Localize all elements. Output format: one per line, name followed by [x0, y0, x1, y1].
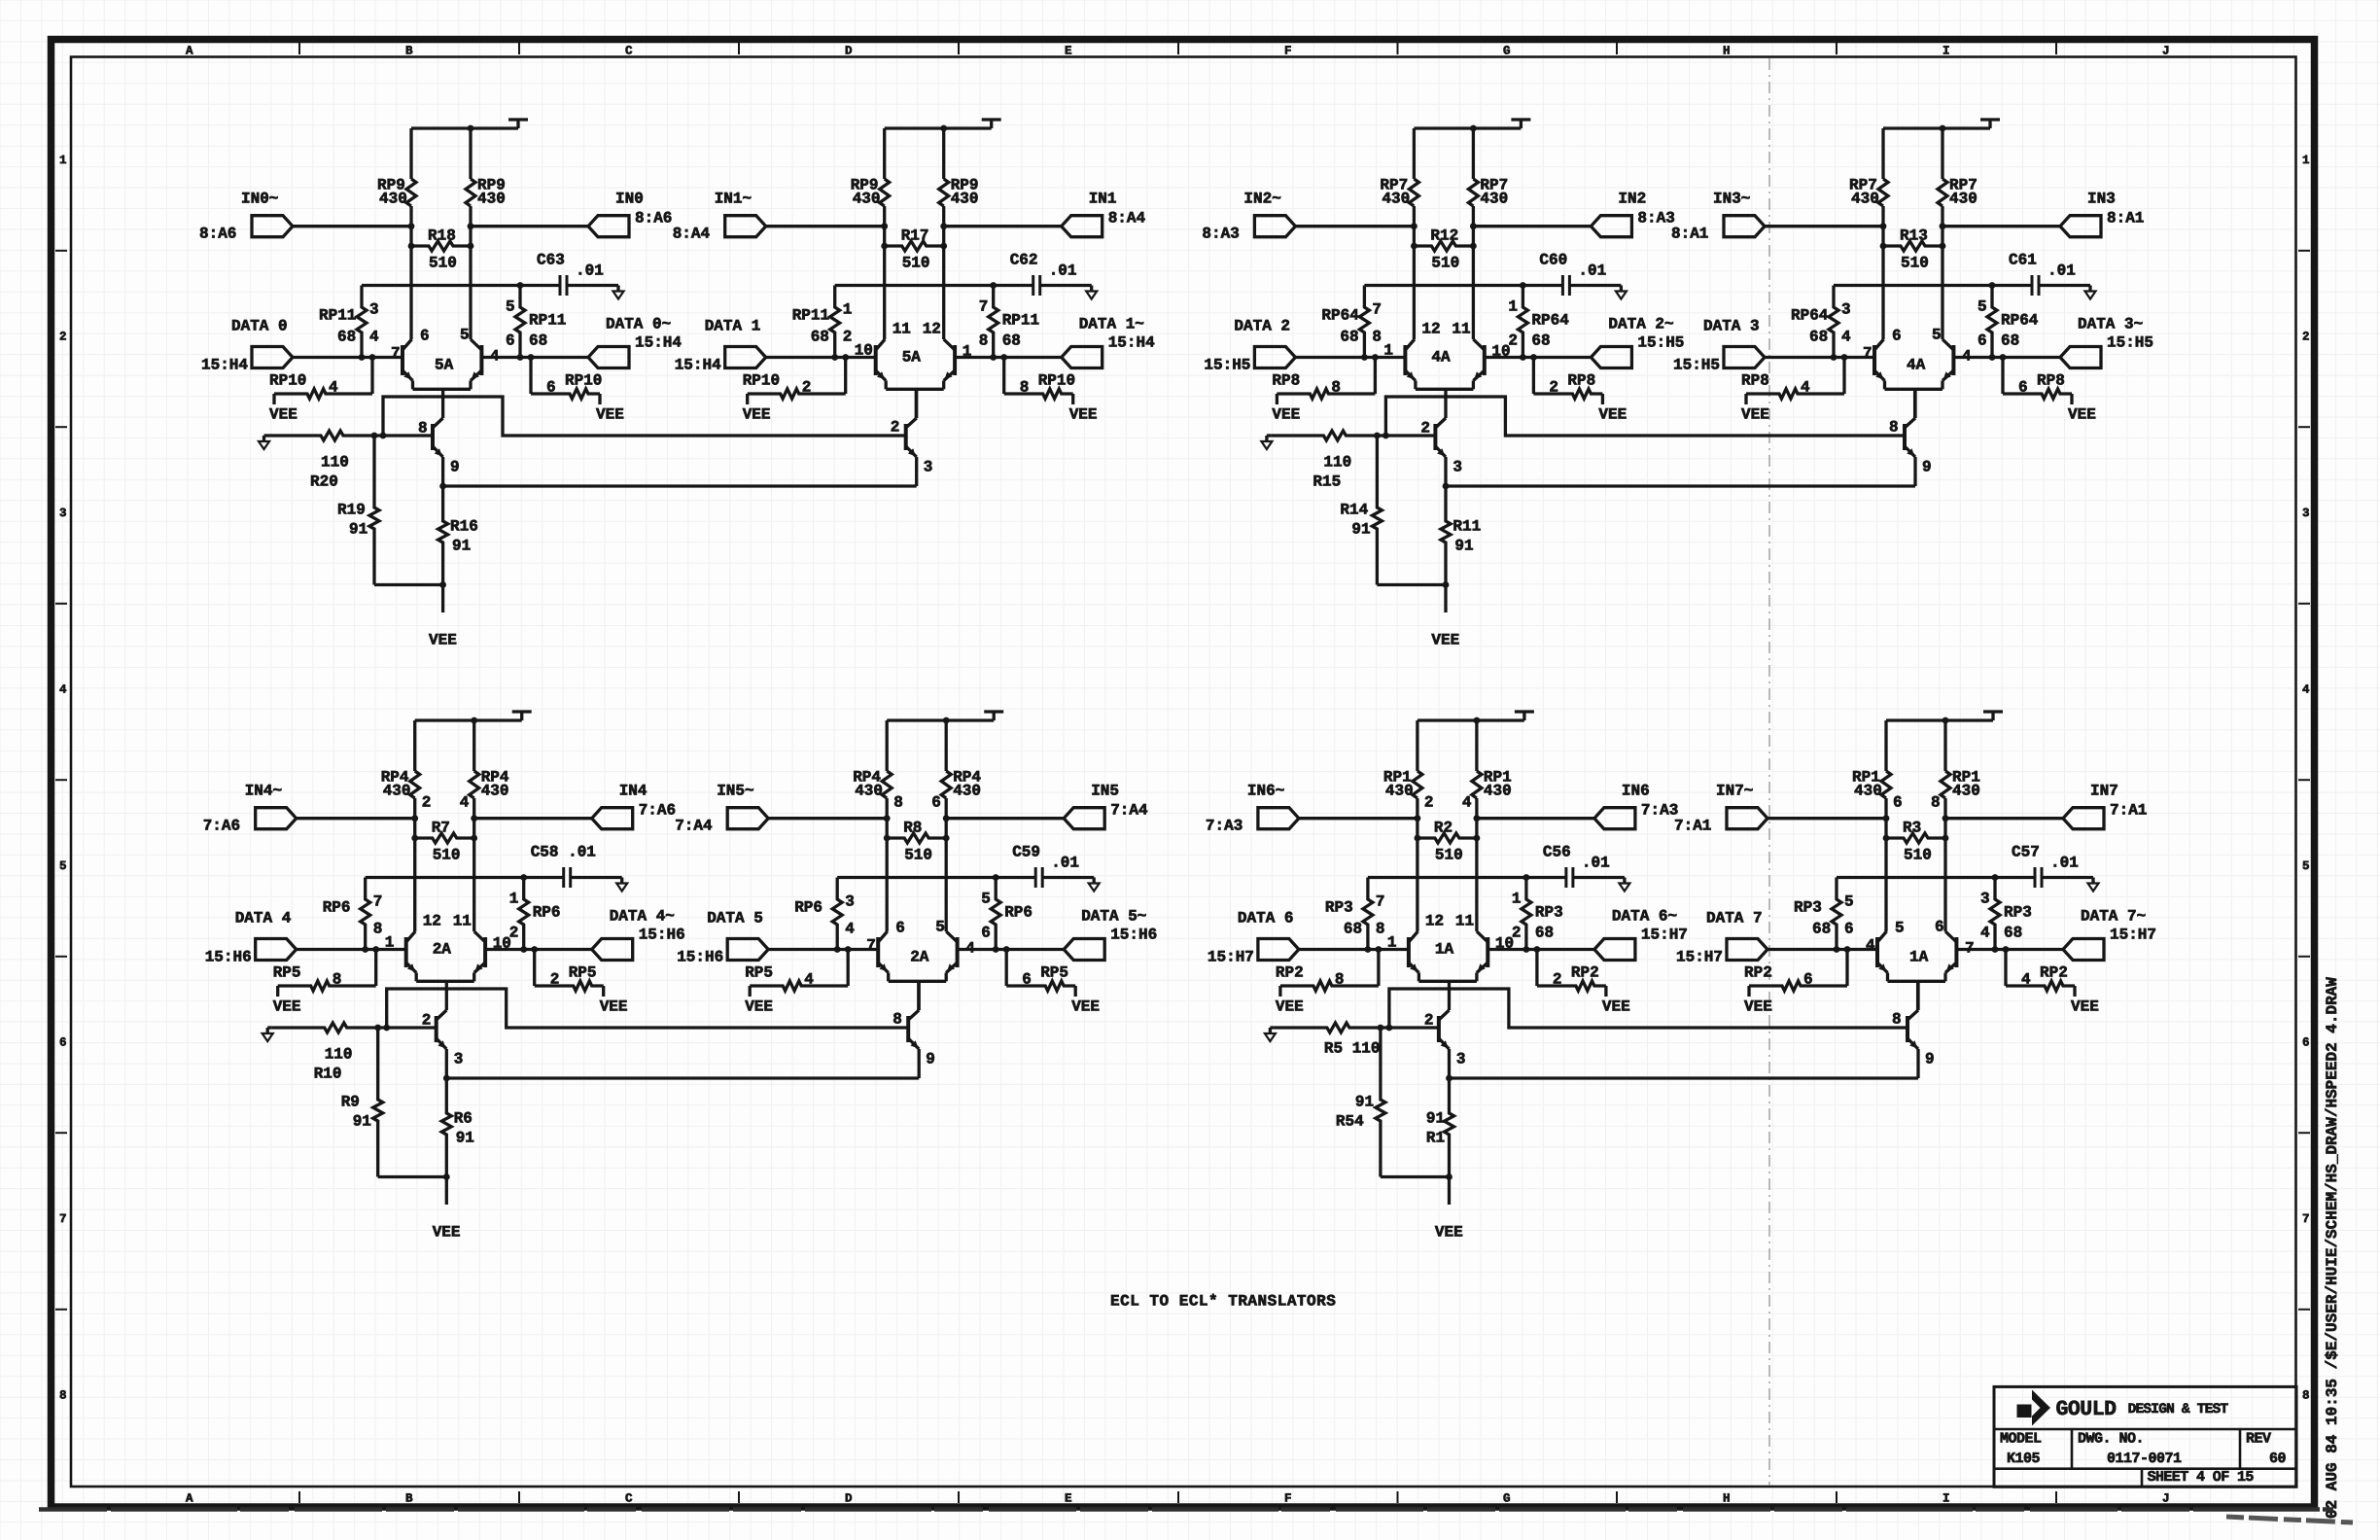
svg-text:430: 430 — [379, 191, 407, 208]
resistor RP7 430 left (IN2 cell) — [1380, 177, 1418, 208]
svg-text:91: 91 — [353, 1113, 371, 1131]
resistor R3 510 (IN7 cell) — [1883, 820, 1949, 864]
wire 2A emitter tail — [917, 981, 920, 1010]
title block frame — [1994, 1386, 2296, 1487]
svg-text:IN7: IN7 — [2090, 783, 2118, 800]
ground at C63 (IN0 cell) — [613, 286, 624, 299]
title block MODEL K105 — [2000, 1431, 2042, 1468]
wire collector cross line to C62 (IN1 cell) — [835, 282, 1033, 289]
resistor RP10 right pin 8 to VEE (IN1 cell) — [1004, 358, 1075, 405]
wire collector cross line to C58 (IN4 cell) — [366, 874, 564, 881]
svg-text:DATA 2: DATA 2 — [1234, 318, 1290, 335]
svg-text:.01: .01 — [1051, 855, 1079, 872]
svg-text:7: 7 — [59, 1212, 67, 1226]
svg-text:VEE: VEE — [1071, 998, 1100, 1016]
svg-text:3: 3 — [1456, 1051, 1466, 1068]
svg-text:R3: R3 — [1903, 820, 1921, 837]
svg-text:DATA 7~: DATA 7~ — [2081, 908, 2146, 926]
svg-text:REV: REV — [2246, 1431, 2271, 1448]
svg-text:60: 60 — [2269, 1451, 2287, 1467]
power VEE left (IN4 cell) — [273, 998, 301, 1016]
resistor R17 510 (IN1 cell) — [881, 227, 947, 272]
wire left collector rail (IN3 cell) — [1881, 128, 1884, 339]
wire IN0~ to left rail — [293, 223, 414, 229]
resistor RP2 right pin 2 to VEE (IN6 cell) — [1537, 950, 1606, 997]
logo GOULD emblem — [2017, 1390, 2051, 1426]
connector DATA 0~ output (15:H4) — [588, 316, 682, 368]
capacitor C62 .01 (IN1 cell) — [1010, 252, 1092, 296]
power VEE bias tail — [1431, 632, 1459, 649]
ground at C58 (IN4 cell) — [616, 878, 627, 892]
svg-text:I: I — [1942, 1492, 1950, 1506]
ground at bias divider — [259, 436, 269, 449]
border column letters top — [186, 43, 2170, 58]
transistor bias Q pins 2/3 (under IN4 cell) — [422, 1010, 464, 1078]
wire right collector rail (IN2 cell) — [1472, 128, 1475, 339]
svg-text:6: 6 — [1803, 971, 1813, 989]
svg-text:6: 6 — [931, 794, 941, 812]
svg-text:8: 8 — [1931, 794, 1941, 812]
svg-text:7:A6: 7:A6 — [639, 802, 676, 820]
connector DATA 3~ output (15:H5) — [2060, 316, 2153, 368]
svg-text:E: E — [1065, 45, 1072, 58]
svg-text:7: 7 — [1376, 893, 1385, 911]
wire DATA 0 to base, node with junctions — [293, 354, 402, 361]
connector DATA 4~ output (15:H6) — [592, 908, 685, 961]
svg-text:8: 8 — [893, 794, 903, 812]
resistor R19 91 — [337, 436, 443, 585]
svg-text:R15: R15 — [1312, 473, 1341, 491]
svg-text:15:H4: 15:H4 — [201, 357, 248, 374]
power VEE left (IN1 cell) — [743, 406, 771, 424]
connector IN2~ input (8:A3) — [1202, 191, 1295, 243]
svg-text:68: 68 — [1812, 921, 1831, 938]
wire left collector rail (IN6 cell) — [1416, 720, 1418, 931]
power VEE left (IN5 cell) — [745, 998, 773, 1016]
svg-text:IN7~: IN7~ — [1716, 783, 1753, 800]
svg-text:4: 4 — [460, 794, 470, 812]
svg-text:H: H — [1723, 1492, 1731, 1506]
svg-text:4: 4 — [1462, 794, 1472, 812]
svg-text:H: H — [1723, 45, 1731, 58]
svg-text:8: 8 — [373, 921, 383, 938]
svg-text:RP6: RP6 — [794, 899, 822, 917]
svg-text:1: 1 — [962, 343, 972, 361]
connector DATA 3 input (15:H5) — [1673, 318, 1765, 374]
svg-text:8: 8 — [1020, 379, 1030, 397]
wire DATA 3~ from base, node with junctions — [1953, 354, 2060, 361]
wire left collector rail (IN1 cell) — [883, 128, 886, 339]
title block REV 60 — [2246, 1431, 2287, 1468]
connector DATA 2 input (15:H5) — [1204, 318, 1295, 374]
svg-text:7:A1: 7:A1 — [1674, 818, 1711, 835]
svg-text:9: 9 — [926, 1051, 935, 1068]
svg-text:430: 430 — [1851, 191, 1879, 208]
resistor RP5 right pin 6 to VEE (IN5 cell) — [1006, 950, 1075, 997]
ground at C60 (IN2 cell) — [1616, 286, 1627, 299]
svg-text:R11: R11 — [1452, 518, 1481, 536]
svg-text:430: 430 — [953, 783, 981, 800]
wire IN4 to right rail — [471, 815, 591, 822]
svg-text:6: 6 — [1893, 794, 1903, 812]
resistor RP8 left pin 4 to VEE (IN3 cell) — [1741, 358, 1844, 405]
svg-text:12: 12 — [923, 321, 941, 338]
wire IN7~ to left rail — [1767, 815, 1889, 822]
transistor pair 5A (IN1 cell) — [855, 321, 972, 390]
svg-text:8:A6: 8:A6 — [199, 226, 236, 243]
svg-text:R1: R1 — [1426, 1130, 1445, 1147]
svg-text:8: 8 — [332, 971, 342, 989]
wire emitter bus to right bias transistor — [446, 1076, 919, 1079]
svg-text:2: 2 — [891, 419, 900, 437]
svg-text:RP5: RP5 — [273, 964, 301, 982]
resistor R16 91 — [438, 486, 478, 612]
svg-text:7:A6: 7:A6 — [203, 818, 240, 835]
svg-text:6: 6 — [506, 332, 515, 350]
svg-text:12: 12 — [1425, 913, 1444, 930]
svg-text:7: 7 — [391, 345, 401, 363]
fold line (vertical crease mark) — [1768, 58, 1770, 1486]
svg-text:6: 6 — [981, 925, 991, 942]
svg-text:8: 8 — [1376, 921, 1385, 938]
capacitor C56 .01 (IN6 cell) — [1543, 844, 1625, 888]
resistor R2 510 (IN6 cell) — [1415, 820, 1481, 864]
svg-text:RP2: RP2 — [2040, 964, 2068, 982]
connector DATA 7~ output (15:H7) — [2063, 908, 2156, 961]
svg-text:15:H5: 15:H5 — [1673, 357, 1720, 374]
svg-text:.01: .01 — [576, 262, 604, 280]
svg-text:5: 5 — [506, 298, 515, 316]
ground at C57 (IN7 cell) — [2088, 878, 2099, 892]
svg-text:ECL TO ECL* TRANSLATORS: ECL TO ECL* TRANSLATORS — [1110, 1293, 1336, 1311]
capacitor C59 .01 (IN5 cell) — [1012, 844, 1094, 888]
svg-text:1: 1 — [843, 301, 853, 319]
connector DATA 4 input (15:H6) — [205, 910, 297, 966]
resistor RP2 left pin 6 to VEE (IN7 cell) — [1744, 950, 1847, 997]
svg-text:6: 6 — [1935, 919, 1944, 936]
svg-text:D: D — [845, 1492, 853, 1506]
resistor 91 R54 — [1336, 1028, 1450, 1177]
wire DATA 3 to base, node with junctions — [1765, 354, 1874, 361]
connector DATA 7 input (15:H7) — [1676, 910, 1767, 966]
svg-text:7:A3: 7:A3 — [1641, 802, 1678, 820]
svg-text:12: 12 — [423, 913, 441, 930]
svg-text:.01: .01 — [2047, 262, 2076, 280]
svg-text:91: 91 — [349, 521, 367, 539]
resistor R10 110 — [272, 1023, 378, 1083]
resistor RP4 430 right (IN5 cell) — [931, 769, 981, 812]
svg-text:VEE: VEE — [1435, 1224, 1463, 1242]
resistor RP5 left pin 4 to VEE (IN5 cell) — [745, 950, 848, 997]
wire DATA 1 to base, node with junctions — [766, 354, 876, 361]
resistor R5 110 110 — [1275, 1023, 1381, 1058]
svg-text:7: 7 — [2302, 1212, 2310, 1226]
wire base bus to right bias transistor — [383, 397, 906, 436]
svg-text:8:A4: 8:A4 — [1108, 210, 1146, 227]
svg-text:F: F — [1284, 45, 1292, 58]
svg-text:R5 110: R5 110 — [1324, 1040, 1381, 1058]
wire IN0 to right rail — [468, 223, 588, 229]
svg-text:6: 6 — [546, 379, 556, 397]
transistor bias Q pins 8/9 (under IN3 cell) — [1889, 389, 1932, 486]
wire VCC top rail (IN1 cell) — [885, 120, 1001, 131]
wire collector cross line to C61 (IN3 cell) — [1834, 282, 2032, 289]
title block DWG.NO. 0117-0071 — [2078, 1431, 2182, 1468]
svg-text:C: C — [625, 45, 633, 58]
power VEE right (IN0 cell) — [596, 406, 624, 424]
connector IN4~ input (7:A6) — [203, 783, 297, 835]
svg-text:8: 8 — [1892, 1011, 1902, 1029]
resistor RP64 68 left, pins 7/8 (IN2 cell) — [1321, 286, 1382, 358]
svg-text:IN1: IN1 — [1089, 191, 1117, 208]
transistor pair 4A (IN3 cell) — [1863, 327, 1972, 390]
wire DATA 4~ from base, node with junctions — [485, 946, 592, 953]
svg-text:8: 8 — [1335, 971, 1345, 989]
svg-text:DATA 4~: DATA 4~ — [610, 908, 675, 926]
resistor RP4 430 right (IN4 cell) — [460, 769, 509, 812]
svg-text:A: A — [186, 1492, 193, 1506]
wire IN3~ to left rail — [1765, 223, 1886, 229]
wire emitter bus to right bias transistor — [1450, 1076, 1919, 1079]
wire DATA 7 to base, node with junctions — [1767, 946, 1877, 953]
svg-text:02 AUG 84 10:35 /$E/USER/HUIE/: 02 AUG 84 10:35 /$E/USER/HUIE/SCHEM/HS_D… — [2324, 977, 2341, 1519]
wire 1A emitter tail — [1448, 981, 1451, 1010]
svg-text:7: 7 — [866, 937, 876, 955]
svg-text:VEE: VEE — [433, 1224, 461, 1242]
connector IN1~ input (8:A4) — [673, 191, 766, 243]
ground at C62 (IN1 cell) — [1086, 286, 1097, 299]
svg-text:15:H6: 15:H6 — [639, 927, 685, 944]
resistor RP3 68 right, pins 3/4 (IN7 cell) — [1980, 878, 2032, 950]
resistor R15 110 — [1271, 431, 1377, 491]
resistor RP64 68 left, pins 3/4 (IN3 cell) — [1791, 286, 1851, 358]
svg-text:4: 4 — [965, 940, 975, 958]
svg-text:68: 68 — [1809, 329, 1828, 346]
svg-text:11: 11 — [1452, 321, 1470, 338]
svg-text:R17: R17 — [901, 227, 929, 245]
connector DATA 2~ output (15:H5) — [1591, 316, 1684, 368]
svg-text:15:H4: 15:H4 — [675, 357, 721, 374]
title block SHEET 4 OF 15 — [2148, 1469, 2255, 1486]
power VEE right (IN2 cell) — [1598, 406, 1627, 424]
svg-text:IN6~: IN6~ — [1247, 783, 1284, 800]
svg-text:110: 110 — [1323, 454, 1351, 472]
svg-text:IN2: IN2 — [1618, 191, 1646, 208]
resistor RP2 right pin 4 to VEE (IN7 cell) — [2006, 950, 2075, 997]
svg-text:RP8: RP8 — [2037, 372, 2065, 390]
resistor RP3 68 right, pins 1/2 (IN6 cell) — [1512, 878, 1563, 950]
svg-text:15:H5: 15:H5 — [2107, 334, 2153, 352]
svg-text:68: 68 — [811, 329, 829, 346]
resistor RP6 68 right, pins 1/2 (IN4 cell) — [509, 878, 561, 950]
svg-text:91: 91 — [1454, 538, 1473, 555]
wire VCC top rail (IN2 cell) — [1414, 120, 1530, 131]
svg-text:DATA 0: DATA 0 — [231, 318, 288, 335]
svg-text:RP8: RP8 — [1567, 372, 1595, 390]
svg-text:7:A4: 7:A4 — [1110, 802, 1148, 820]
transistor bias Q pins 8/9 (under IN0 cell) — [418, 418, 460, 486]
svg-text:4: 4 — [845, 921, 855, 938]
svg-text:R13: R13 — [1900, 227, 1928, 245]
svg-text:C: C — [625, 1492, 633, 1506]
resistor R8 510 (IN5 cell) — [884, 820, 950, 864]
wire VCC top rail (IN7 cell) — [1886, 712, 2003, 723]
svg-text:DATA 6: DATA 6 — [1238, 910, 1294, 927]
svg-text:5: 5 — [1932, 327, 1942, 344]
resistor R18 510 (IN0 cell) — [408, 227, 474, 272]
svg-text:RP5: RP5 — [1040, 964, 1068, 982]
svg-text:5: 5 — [59, 859, 67, 873]
resistor R12 510 (IN2 cell) — [1411, 227, 1477, 272]
connector IN0 output (8:A6) — [588, 191, 672, 237]
svg-text:IN6: IN6 — [1622, 783, 1650, 800]
svg-text:4A: 4A — [1907, 357, 1926, 374]
svg-text:8:A4: 8:A4 — [673, 226, 711, 243]
resistor RP9 430 right (IN1 cell) — [939, 177, 979, 208]
svg-text:VEE: VEE — [273, 998, 301, 1016]
svg-text:15:H7: 15:H7 — [1676, 949, 1723, 966]
svg-text:J: J — [2162, 45, 2170, 58]
connector DATA 1 input (15:H4) — [675, 318, 766, 374]
svg-text:510: 510 — [1435, 847, 1463, 864]
wire right collector rail (IN7 cell) — [1943, 720, 1946, 931]
wire DATA 1~ from base, node with junctions — [955, 354, 1062, 361]
svg-text:IN2~: IN2~ — [1243, 191, 1280, 208]
svg-text:15:H4: 15:H4 — [635, 334, 682, 352]
svg-text:430: 430 — [951, 191, 979, 208]
svg-text:91: 91 — [456, 1130, 474, 1147]
transistor pair 1A (IN6 cell) — [1387, 913, 1514, 982]
svg-text:RP10: RP10 — [565, 372, 602, 390]
svg-text:.01: .01 — [1049, 262, 1077, 280]
connector DATA 0 input (15:H4) — [201, 318, 293, 374]
wire DATA 6~ from base, node with junctions — [1487, 946, 1594, 953]
ground at bias divider — [1261, 436, 1272, 449]
capacitor C63 .01 (IN0 cell) — [537, 252, 618, 296]
resistor RP11 68 right, pins 5/6 (IN0 cell) — [506, 286, 566, 358]
svg-text:VEE: VEE — [1744, 998, 1772, 1016]
connector IN3 output (8:A1) — [2060, 191, 2144, 237]
svg-text:VEE: VEE — [1069, 406, 1098, 424]
resistor RP64 68 right, pins 5/6 (IN3 cell) — [1977, 286, 2039, 358]
wire IN6~ to left rail — [1299, 815, 1420, 822]
wire IN2 to right rail — [1470, 223, 1591, 229]
connector DATA 6~ output (15:H7) — [1594, 908, 1688, 961]
svg-text:3: 3 — [369, 301, 379, 319]
connector IN6~ input (7:A3) — [1206, 783, 1299, 835]
svg-text:1: 1 — [1512, 891, 1522, 908]
svg-text:GOULD: GOULD — [2056, 1398, 2117, 1421]
svg-text:110: 110 — [325, 1046, 353, 1064]
svg-text:4: 4 — [2302, 683, 2310, 697]
svg-text:DATA 0~: DATA 0~ — [606, 316, 671, 333]
svg-text:I: I — [1942, 45, 1950, 58]
transistor bias Q pins 8/9 (under IN7 cell) — [1892, 981, 1935, 1078]
wire IN1~ to left rail — [766, 223, 888, 229]
wire DATA 0~ from base, node with junctions — [481, 354, 588, 361]
power VEE right (IN3 cell) — [2068, 406, 2096, 424]
power VEE bias tail — [1435, 1224, 1463, 1242]
svg-text:2: 2 — [59, 331, 67, 344]
svg-text:VEE: VEE — [745, 998, 773, 1016]
svg-text:RP8: RP8 — [1741, 372, 1769, 390]
svg-text:R9: R9 — [341, 1094, 360, 1111]
svg-text:DATA 2~: DATA 2~ — [1608, 316, 1673, 333]
wire collector cross line to C57 (IN7 cell) — [1837, 874, 2035, 881]
transistor pair 2A (IN4 cell) — [385, 913, 511, 982]
svg-text:430: 430 — [1484, 783, 1512, 800]
svg-text:R16: R16 — [450, 518, 478, 536]
svg-text:8: 8 — [892, 1011, 902, 1029]
svg-text:8:A3: 8:A3 — [1202, 226, 1239, 243]
svg-text:7: 7 — [1965, 940, 1975, 958]
svg-text:C63: C63 — [537, 252, 565, 269]
label GOULD DESIGN & TEST — [2056, 1398, 2229, 1421]
svg-text:5: 5 — [1895, 920, 1905, 937]
svg-text:RP11: RP11 — [792, 307, 829, 325]
svg-text:F: F — [1284, 1492, 1292, 1506]
svg-text:RP11: RP11 — [529, 312, 566, 330]
svg-text:R8: R8 — [903, 820, 922, 837]
svg-text:RP2: RP2 — [1571, 964, 1599, 982]
svg-text:9: 9 — [1925, 1051, 1935, 1068]
svg-text:DATA 1~: DATA 1~ — [1079, 316, 1144, 333]
wire base bus to right bias transistor — [1389, 989, 1907, 1028]
svg-text:15:H4: 15:H4 — [1108, 334, 1155, 352]
svg-text:R7: R7 — [432, 820, 450, 837]
transistor pair 4A (IN2 cell) — [1383, 321, 1510, 390]
svg-text:8: 8 — [1372, 329, 1382, 346]
svg-text:2: 2 — [422, 794, 432, 812]
svg-text:VEE: VEE — [429, 632, 457, 649]
svg-text:510: 510 — [433, 847, 461, 864]
svg-text:430: 430 — [481, 783, 509, 800]
svg-text:IN1~: IN1~ — [715, 191, 752, 208]
resistor RP4 430 left (IN4 cell) — [381, 769, 432, 812]
svg-text:430: 430 — [1949, 191, 1977, 208]
svg-text:6: 6 — [895, 920, 905, 937]
resistor RP1 430 left (IN6 cell) — [1383, 769, 1434, 812]
power VEE left (IN0 cell) — [269, 406, 297, 424]
svg-text:G: G — [1503, 1492, 1511, 1506]
svg-text:91: 91 — [452, 538, 471, 555]
svg-text:C59: C59 — [1012, 844, 1040, 861]
svg-text:A: A — [186, 45, 193, 58]
capacitor C58 .01 (IN4 cell) — [531, 844, 622, 888]
wire right collector rail (IN1 cell) — [942, 128, 945, 339]
svg-text:2: 2 — [2302, 331, 2310, 344]
svg-text:5: 5 — [2302, 859, 2310, 873]
svg-text:2: 2 — [550, 971, 560, 989]
svg-text:4: 4 — [2021, 971, 2031, 989]
svg-text:2: 2 — [843, 329, 853, 346]
svg-text:12: 12 — [1421, 321, 1440, 338]
resistor RP11 68 left, pins 1/2 (IN1 cell) — [792, 286, 853, 358]
svg-text:6: 6 — [2018, 379, 2028, 397]
svg-text:RP2: RP2 — [1276, 964, 1304, 982]
resistor RP8 left pin 8 to VEE (IN2 cell) — [1272, 358, 1375, 405]
svg-text:430: 430 — [1385, 783, 1414, 800]
wire bias base node — [371, 433, 433, 439]
resistor R7 510 (IN4 cell) — [411, 820, 477, 864]
svg-text:VEE: VEE — [600, 998, 628, 1016]
svg-text:6: 6 — [2302, 1036, 2310, 1050]
svg-text:430: 430 — [1952, 783, 1980, 800]
label ECL TO ECL* TRANSLATORS — [1110, 1293, 1336, 1311]
resistor RP6 68 left, pins 7/8 (IN4 cell) — [323, 878, 383, 950]
svg-text:RP64: RP64 — [1321, 307, 1359, 325]
scan artifact bottom streak — [39, 1510, 2353, 1523]
